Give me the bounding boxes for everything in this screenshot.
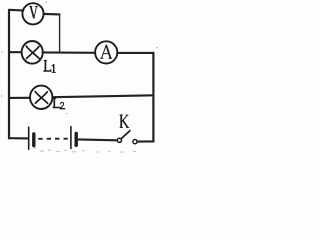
lamp L1: [22, 41, 43, 64]
label L2: [53, 99, 65, 109]
wire: lamp L1 to ammeter (junction with voltmeter vertical): [42, 51, 95, 53]
wire: ammeter to right rail: [117, 52, 153, 54]
wire: right rail: [152, 53, 154, 141]
battery cell 2: long plate: [70, 127, 72, 149]
wire: bottom row, left rail to battery: [9, 137, 28, 139]
wire: L2 row, left rail to lamp L2: [9, 97, 30, 99]
switch K: left terminal: [117, 138, 121, 142]
scan speckles (noise): [1, 2, 158, 153]
lamp L2: [30, 86, 52, 109]
wire: vertical from voltmeter loop down to L1/A row: [59, 14, 61, 52]
wire: lamp L2 to right rail: [53, 95, 154, 97]
battery cell 1: long plate: [28, 127, 30, 149]
battery cell 2: short thick plate: [74, 133, 77, 145]
wire: L1 row, left rail to lamp L1: [9, 51, 21, 53]
switch K: lever: [122, 131, 130, 139]
wire: switch to right rail: [137, 140, 153, 142]
wire: voltmeter right lead to corner: [44, 13, 60, 16]
voltmeter V: [22, 3, 43, 24]
wire: top wire from left rail to voltmeter: [9, 9, 23, 12]
wire: battery to switch: [78, 138, 117, 141]
label K: [120, 115, 129, 128]
wire: dashed link between battery cells: [38, 138, 68, 140]
label L1: [44, 60, 55, 72]
wire: left rail: [8, 10, 10, 138]
battery cell 1: short thick plate: [32, 134, 35, 146]
ammeter A: [95, 41, 117, 63]
switch K: right terminal: [133, 140, 137, 144]
